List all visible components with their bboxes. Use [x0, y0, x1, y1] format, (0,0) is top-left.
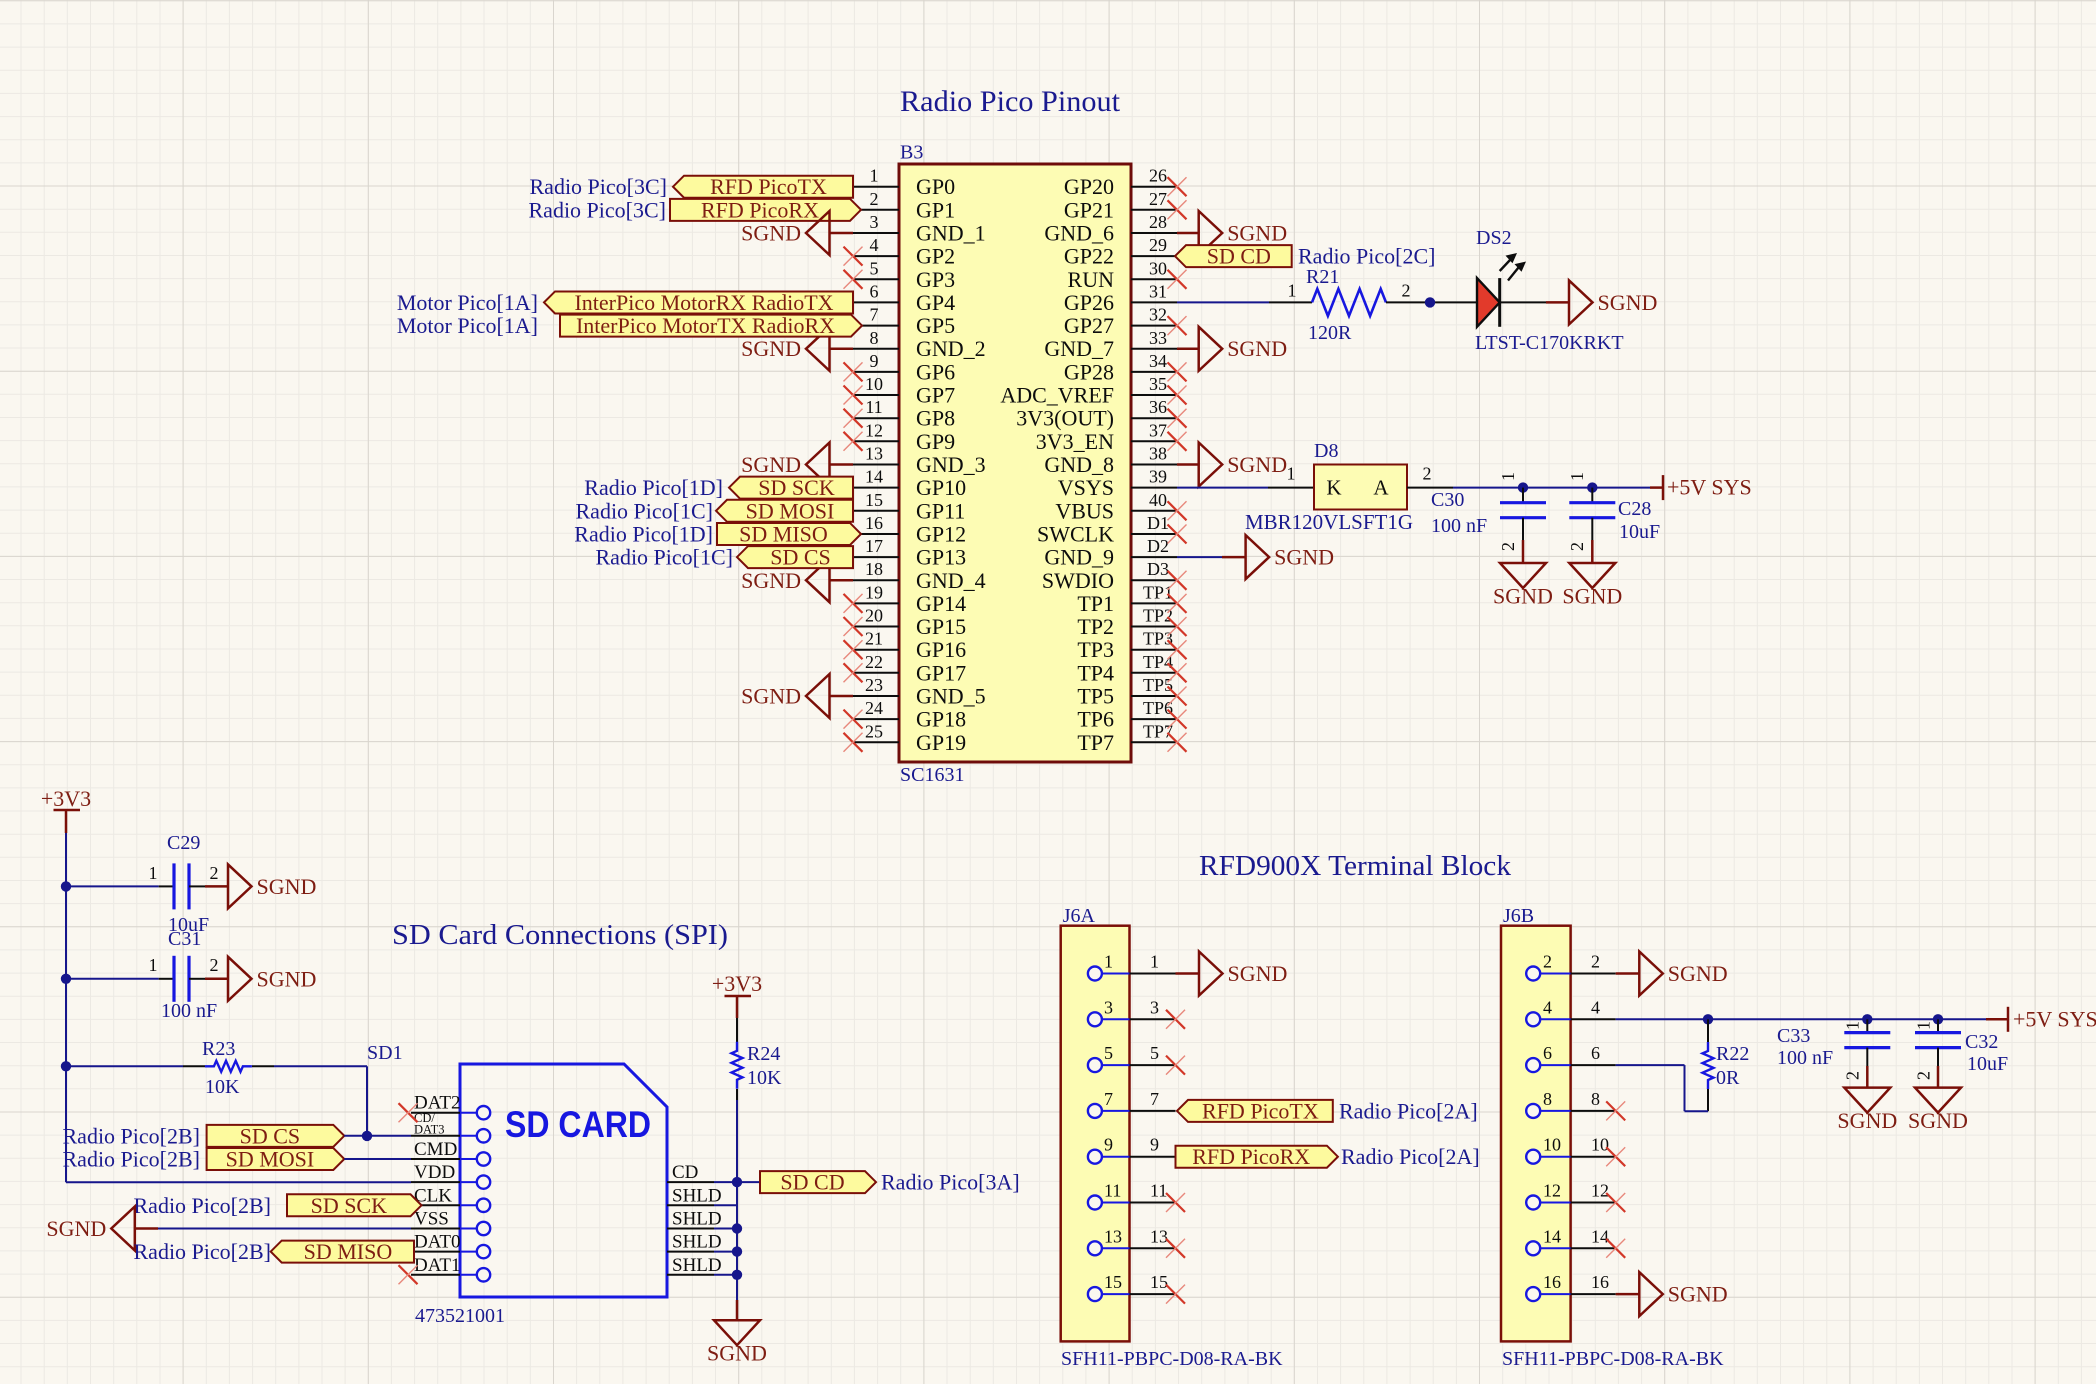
no-connect X pin 34 [1168, 362, 1187, 381]
port SD MOSI (pin15) [716, 500, 853, 522]
resistor R23 [205, 1061, 252, 1072]
svg-text:Radio Pico[2A]: Radio Pico[2A] [1341, 1144, 1480, 1169]
svg-text:GP21: GP21 [1064, 197, 1114, 222]
ground SGND pin8 [806, 327, 830, 371]
no-connect X pin TP7 [1168, 733, 1187, 752]
B3 pin 22 (GP17) [853, 652, 966, 686]
svg-text:SGND: SGND [1227, 221, 1287, 246]
power +5V SYS (top) [1662, 475, 1665, 500]
svg-text:TP7: TP7 [1077, 730, 1114, 755]
svg-text:26: 26 [1149, 166, 1167, 186]
svg-text:Radio Pico[1C]: Radio Pico[1C] [596, 545, 734, 570]
port RFD PicoTX (J6A pin7) [1177, 1100, 1333, 1122]
svg-text:TP3: TP3 [1143, 629, 1173, 649]
ground SGND pin 38 [1199, 443, 1223, 487]
SD1 right pin SHLD [667, 1255, 722, 1276]
diode D8 [1314, 465, 1407, 510]
svg-text:4: 4 [870, 235, 879, 255]
port SD MOSI (SD card) [207, 1148, 345, 1170]
svg-text:1: 1 [1843, 1021, 1863, 1030]
J6B pin 10 [1526, 1135, 1616, 1164]
B3 pin 39 (VSYS) [1058, 467, 1177, 501]
port SD SCK (SD card) [287, 1194, 422, 1216]
svg-text:C33: C33 [1777, 1025, 1810, 1047]
wire SHLD4 [714, 1274, 737, 1276]
svg-text:15: 15 [1104, 1272, 1122, 1292]
svg-text:TP1: TP1 [1143, 582, 1173, 602]
svg-text:RFD PicoTX: RFD PicoTX [1202, 1098, 1319, 1123]
svg-text:1: 1 [1288, 280, 1297, 300]
resistor R22 [1703, 1042, 1714, 1089]
no-connect X J6B pin 10 [1606, 1147, 1625, 1166]
svg-text:C32: C32 [1965, 1031, 1998, 1053]
port RFD PicoTX (pin1) [673, 176, 853, 198]
J6B pin 8 [1526, 1089, 1616, 1118]
no-connect X pin 5 [844, 270, 863, 289]
svg-text:2: 2 [1567, 542, 1587, 551]
ground SGND pin 28 [1199, 211, 1223, 255]
svg-text:23: 23 [865, 675, 883, 695]
no-connect X pin D1 [1168, 525, 1187, 544]
B3 pin 7 (GP5) [853, 305, 955, 339]
svg-text:SD SCK: SD SCK [758, 475, 835, 500]
wire pin13 to SGND [830, 463, 854, 466]
svg-text:GND_6: GND_6 [1044, 221, 1114, 246]
junction at SD CS [362, 1131, 372, 1141]
wire C31 to SGND [189, 978, 205, 980]
SD1 right pin CD [667, 1162, 714, 1183]
junction at R22 [1703, 1014, 1713, 1024]
B3 pin TP6 (TP6) [1077, 698, 1177, 732]
svg-text:K: K [1326, 476, 1341, 500]
junction at CD [732, 1177, 742, 1187]
B3 pin 32 (GP27) [1064, 305, 1177, 339]
no-connect X pin 19 [844, 594, 863, 613]
svg-text:SFH11-PBPC-D08-RA-BK: SFH11-PBPC-D08-RA-BK [1502, 1348, 1724, 1370]
no-connect X pin 11 [844, 409, 863, 428]
svg-text:R24: R24 [747, 1043, 780, 1065]
svg-text:1: 1 [1498, 472, 1518, 481]
svg-text:RFD PicoTX: RFD PicoTX [710, 174, 827, 199]
wire R21 to LED [1386, 301, 1477, 303]
svg-text:GND_8: GND_8 [1044, 452, 1114, 477]
svg-text:Motor Pico[1A]: Motor Pico[1A] [397, 290, 538, 315]
svg-text:SGND: SGND [1274, 545, 1334, 570]
svg-text:7: 7 [1104, 1089, 1113, 1109]
SD1 right pin SHLD [667, 1232, 722, 1253]
svg-text:35: 35 [1149, 374, 1167, 394]
svg-text:C30: C30 [1431, 489, 1464, 511]
svg-text:16: 16 [1591, 1272, 1609, 1292]
svg-text:SHLD: SHLD [672, 1185, 722, 1206]
svg-text:10: 10 [865, 374, 883, 394]
no-connect X pin TP2 [1168, 617, 1187, 636]
svg-text:28: 28 [1149, 212, 1167, 232]
wire SHLD rail down [736, 1182, 738, 1300]
svg-text:13: 13 [1104, 1226, 1122, 1246]
svg-text:+5V SYS: +5V SYS [1667, 475, 1752, 500]
wire +3V3 rail vertical [65, 833, 67, 1182]
capacitor C30 [1500, 488, 1546, 563]
junction at C30 [1518, 482, 1528, 492]
B3 pin 14 (GP10) [853, 467, 966, 501]
svg-text:12: 12 [1543, 1181, 1561, 1201]
ground SGND pin18 [806, 558, 830, 602]
no-connect X pin TP3 [1168, 640, 1187, 659]
svg-text:27: 27 [1149, 189, 1167, 209]
svg-text:Radio Pico[1D]: Radio Pico[1D] [584, 475, 723, 500]
svg-text:SGND: SGND [1228, 961, 1288, 986]
J6B pin 14 [1526, 1226, 1616, 1255]
svg-text:RFD PicoRX: RFD PicoRX [1192, 1144, 1310, 1169]
svg-text:5: 5 [1104, 1043, 1113, 1063]
svg-text:20: 20 [865, 606, 883, 626]
SD1 right pin SHLD [667, 1209, 722, 1230]
svg-text:24: 24 [865, 698, 883, 718]
ground SGND pin D2 [1246, 535, 1270, 579]
wire SHLD1 [714, 1204, 737, 1206]
svg-text:SFH11-PBPC-D08-RA-BK: SFH11-PBPC-D08-RA-BK [1061, 1348, 1283, 1370]
svg-text:3: 3 [1104, 997, 1113, 1017]
J6A pin 7 [1088, 1089, 1176, 1118]
svg-text:GP12: GP12 [916, 522, 966, 547]
no-connect X pin TP6 [1168, 710, 1187, 729]
wire J6A pin1 to SGND [1176, 972, 1200, 975]
svg-text:LTST-C170KRKT: LTST-C170KRKT [1475, 332, 1624, 354]
svg-text:SGND: SGND [257, 966, 317, 991]
svg-text:SD MOSI: SD MOSI [746, 498, 835, 523]
svg-text:R23: R23 [202, 1038, 235, 1060]
ground SGND below C33 [1844, 1088, 1890, 1113]
svg-text:TP1: TP1 [1077, 591, 1114, 616]
svg-text:38: 38 [1149, 444, 1167, 464]
svg-text:25: 25 [865, 721, 883, 741]
svg-text:29: 29 [1149, 235, 1167, 255]
svg-text:10: 10 [1543, 1135, 1561, 1155]
no-connect X pin TP5 [1168, 687, 1187, 706]
B3 pin 24 (GP18) [853, 698, 966, 732]
no-connect X pin 24 [844, 710, 863, 729]
svg-text:22: 22 [865, 652, 883, 672]
svg-text:SGND: SGND [741, 221, 801, 246]
no-connect X pin 30 [1168, 270, 1187, 289]
svg-text:A: A [1373, 476, 1389, 500]
wire SD MOSI to CMD [344, 1158, 411, 1160]
B3 pin 37 (3V3_EN) [1036, 420, 1177, 454]
B3 pin 15 (GP11) [853, 490, 965, 524]
B3 pin 40 (VBUS) [1055, 490, 1177, 524]
svg-text:11: 11 [1104, 1181, 1121, 1201]
wire D8 to +5V SYS [1407, 487, 1453, 489]
svg-text:C28: C28 [1618, 498, 1651, 520]
J6B pin 4 [1526, 997, 1616, 1026]
wire R23 to SD CS net [252, 1065, 274, 1067]
svg-text:3: 3 [870, 212, 879, 232]
svg-text:TP3: TP3 [1077, 637, 1114, 662]
connector J6B body [1501, 926, 1571, 1342]
junction [1425, 297, 1435, 307]
B3 pin 2 (GP1) [853, 189, 955, 223]
svg-text:9: 9 [870, 351, 879, 371]
svg-text:InterPico MotorTX RadioRX: InterPico MotorTX RadioRX [576, 313, 835, 338]
B3 pin D2 (GND_9) [1044, 536, 1177, 570]
svg-text:16: 16 [1543, 1272, 1561, 1292]
svg-text:SD1: SD1 [367, 1042, 403, 1064]
svg-text:C31: C31 [168, 928, 201, 950]
B3 pin D3 (SWDIO) [1042, 559, 1177, 593]
svg-text:GP20: GP20 [1064, 174, 1114, 199]
svg-text:SGND: SGND [46, 1216, 106, 1241]
B3 pin 8 (GND_2) [853, 328, 986, 361]
resistor R21 [1312, 289, 1386, 316]
svg-text:2: 2 [1423, 464, 1432, 484]
B3 pin 29 (GP22) [1064, 235, 1177, 269]
no-connect X pin TP4 [1168, 663, 1187, 682]
svg-text:GP3: GP3 [916, 267, 955, 292]
no-connect X pin 12 [844, 432, 863, 451]
B3 pin 35 (ADC_VREF) [1000, 374, 1177, 408]
svg-text:SD CS: SD CS [770, 545, 831, 570]
J6A pin 3 [1088, 997, 1176, 1026]
svg-text:SD CARD: SD CARD [505, 1104, 651, 1145]
svg-text:SGND: SGND [707, 1341, 767, 1366]
svg-text:SGND: SGND [1908, 1108, 1968, 1133]
B3 pin TP1 (TP1) [1077, 582, 1177, 616]
no-connect X J6A pin 15 [1166, 1285, 1185, 1304]
svg-text:33: 33 [1149, 328, 1167, 348]
no-connect X pin TP1 [1168, 594, 1187, 613]
svg-text:8: 8 [870, 328, 879, 348]
no-connect X DAT2 [399, 1103, 418, 1122]
svg-text:GP19: GP19 [916, 730, 966, 755]
capacitor C29 [174, 863, 189, 909]
wire SHLD3 [714, 1251, 737, 1253]
svg-text:SGND: SGND [1837, 1108, 1897, 1133]
connector J6A body [1061, 926, 1130, 1342]
junction at R23 [61, 1061, 71, 1071]
svg-text:Radio Pico[2B]: Radio Pico[2B] [134, 1193, 272, 1218]
B3 pin 33 (GND_7) [1044, 328, 1177, 361]
svg-text:SWDIO: SWDIO [1042, 568, 1114, 593]
SD1 left pin VDD [411, 1162, 490, 1189]
wire LED to SGND [1500, 301, 1546, 303]
no-connect X J6A pin 3 [1166, 1010, 1185, 1029]
port InterPico MotorTX RadioRX (pin7) [560, 315, 862, 337]
svg-text:SGND: SGND [1227, 452, 1287, 477]
svg-text:SD CD: SD CD [780, 1170, 844, 1195]
svg-text:DS2: DS2 [1476, 227, 1512, 249]
svg-text:GP7: GP7 [916, 383, 955, 408]
ground SGND pin 33 [1199, 327, 1223, 371]
B3 pin 18 (GND_4) [853, 559, 986, 593]
B3 pin TP5 (TP5) [1077, 675, 1177, 709]
svg-text:CD: CD [672, 1162, 698, 1183]
svg-text:5: 5 [870, 258, 879, 278]
svg-text:GP8: GP8 [916, 406, 955, 431]
svg-text:GP27: GP27 [1064, 313, 1114, 338]
B3 pin 13 (GND_3) [853, 444, 986, 478]
no-connect X pin 35 [1168, 386, 1187, 405]
port SD CS (SD card) [207, 1125, 345, 1147]
wire SD CS to CD/DAT3 [344, 1135, 411, 1137]
B3 pin 36 (3V3(OUT)) [1016, 397, 1177, 431]
svg-text:J6B: J6B [1503, 905, 1534, 927]
svg-text:2: 2 [1914, 1071, 1934, 1080]
J6A pin 13 [1088, 1226, 1176, 1255]
no-connect X pin 36 [1168, 409, 1187, 428]
svg-text:TP5: TP5 [1143, 675, 1173, 695]
svg-text:0R: 0R [1716, 1067, 1740, 1089]
svg-text:GP1: GP1 [916, 197, 955, 222]
svg-text:SD SCK: SD SCK [311, 1193, 388, 1218]
wire pin3 to SGND [830, 232, 854, 235]
port RFD PicoRX (J6A pin9) [1176, 1146, 1338, 1168]
J6B pin 6 [1526, 1043, 1616, 1072]
wire pin18 to SGND [830, 579, 854, 582]
junction at C32 [1933, 1014, 1943, 1024]
J6B pin 2 [1526, 952, 1616, 981]
svg-text:1: 1 [1287, 464, 1296, 484]
svg-text:9: 9 [1104, 1135, 1113, 1155]
svg-text:Radio Pico[1D]: Radio Pico[1D] [574, 522, 713, 547]
resistor R24 [732, 1042, 743, 1089]
svg-text:MBR120VLSFT1G: MBR120VLSFT1G [1245, 510, 1413, 534]
svg-text:Radio Pico[2B]: Radio Pico[2B] [63, 1123, 201, 1148]
B3 pin 38 (GND_8) [1044, 444, 1177, 478]
J6A pin 15 [1088, 1272, 1176, 1301]
svg-text:SD MOSI: SD MOSI [226, 1147, 315, 1172]
port SD CD (pin29) [1175, 245, 1292, 267]
svg-text:6: 6 [870, 281, 879, 301]
no-connect X pin 32 [1168, 316, 1187, 335]
wire pin row to SGND (pin 28) [1177, 232, 1199, 235]
svg-text:12: 12 [1591, 1181, 1609, 1201]
svg-text:DAT1: DAT1 [414, 1255, 460, 1276]
svg-text:21: 21 [865, 629, 883, 649]
wire pin8 to SGND [830, 348, 854, 351]
B3 pin 28 (GND_6) [1044, 212, 1177, 246]
svg-text:16: 16 [865, 513, 883, 533]
B3 pin TP3 (TP3) [1077, 629, 1177, 663]
J6B pin 12 [1526, 1181, 1616, 1210]
no-connect X pin 27 [1168, 200, 1187, 219]
wire rail to VDD [66, 1181, 411, 1183]
svg-text:40: 40 [1149, 490, 1167, 510]
B3 pin 11 (GP8) [853, 397, 955, 431]
svg-text:VBUS: VBUS [1055, 498, 1114, 523]
capacitor C33 [1844, 1019, 1890, 1087]
svg-text:GP17: GP17 [916, 660, 966, 685]
svg-text:GP4: GP4 [916, 290, 955, 315]
no-connect X J6A pin 13 [1166, 1239, 1185, 1258]
ground SGND pin3 [806, 211, 830, 255]
svg-text:D1: D1 [1147, 513, 1169, 533]
wire SHLD2 [714, 1228, 737, 1230]
ground SGND below C28 [1569, 563, 1615, 588]
svg-text:GP5: GP5 [916, 313, 955, 338]
SD1 left pin DAT2 [411, 1093, 490, 1120]
svg-text:9: 9 [1150, 1135, 1159, 1155]
B3 pin 23 (GND_5) [853, 675, 986, 709]
svg-text:D2: D2 [1147, 536, 1169, 556]
svg-text:GND_4: GND_4 [916, 568, 986, 593]
svg-text:RFD PicoRX: RFD PicoRX [701, 197, 819, 222]
svg-text:InterPico MotorRX RadioTX: InterPico MotorRX RadioTX [574, 290, 833, 315]
junction at C28 [1587, 482, 1597, 492]
svg-text:GP28: GP28 [1064, 359, 1114, 384]
no-connect X pin 26 [1168, 177, 1187, 196]
svg-text:3V3_EN: 3V3_EN [1036, 429, 1114, 454]
svg-text:+3V3: +3V3 [712, 971, 762, 996]
svg-text:10uF: 10uF [1619, 521, 1660, 543]
B3 pin TP7 (TP7) [1077, 721, 1177, 755]
svg-text:11: 11 [1150, 1181, 1167, 1201]
svg-text:SGND: SGND [741, 452, 801, 477]
wire J6B pin2 to SGND [1616, 972, 1640, 975]
B3 pin D1 (SWCLK) [1037, 513, 1177, 547]
port SD SCK (pin14) [729, 477, 853, 499]
svg-text:120R: 120R [1308, 322, 1352, 344]
svg-text:GP14: GP14 [916, 591, 966, 616]
svg-text:RFD900X Terminal Block: RFD900X Terminal Block [1199, 851, 1511, 882]
svg-text:CMD: CMD [414, 1139, 457, 1160]
svg-text:RUN: RUN [1068, 267, 1115, 292]
svg-text:ADC_VREF: ADC_VREF [1000, 383, 1114, 408]
svg-text:19: 19 [865, 582, 883, 602]
svg-text:4: 4 [1591, 997, 1600, 1017]
ground SGND J6A pin1 [1199, 952, 1223, 996]
no-connect X J6A pin 5 [1166, 1056, 1185, 1075]
svg-text:Radio Pico[2C]: Radio Pico[2C] [1298, 244, 1436, 269]
svg-text:D3: D3 [1147, 559, 1169, 579]
svg-text:32: 32 [1149, 305, 1167, 325]
svg-text:TP7: TP7 [1143, 721, 1173, 741]
svg-text:Radio Pico[3C]: Radio Pico[3C] [530, 174, 668, 199]
svg-text:1: 1 [870, 166, 879, 186]
no-connect X pin 25 [844, 733, 863, 752]
svg-text:SGND: SGND [741, 684, 801, 709]
ground SGND pin23 [806, 674, 830, 718]
svg-text:SGND: SGND [257, 874, 317, 899]
wire R22 to pin6 [1707, 1089, 1709, 1111]
svg-text:15: 15 [865, 490, 883, 510]
svg-text:Radio Pico[2B]: Radio Pico[2B] [63, 1147, 201, 1172]
ground SGND pin13 [806, 443, 830, 487]
SD1 right pin SHLD [667, 1185, 722, 1206]
svg-text:15: 15 [1150, 1272, 1168, 1292]
svg-text:10K: 10K [205, 1076, 240, 1098]
wire VSYS to D8 [1177, 487, 1268, 489]
svg-text:1: 1 [1150, 952, 1159, 972]
svg-text:1: 1 [1914, 1021, 1934, 1030]
svg-text:11: 11 [865, 397, 882, 417]
wire R24 to CD [736, 1089, 738, 1100]
wire pin4 to R22 [1707, 1019, 1709, 1042]
svg-text:3: 3 [1150, 997, 1159, 1017]
svg-text:TP4: TP4 [1077, 660, 1114, 685]
svg-text:TP2: TP2 [1077, 614, 1114, 639]
svg-text:37: 37 [1149, 420, 1167, 440]
svg-text:TP2: TP2 [1143, 606, 1173, 626]
junction SHLD3 [732, 1246, 742, 1256]
junction SHLD4 [732, 1270, 742, 1280]
wire C29 to SGND [189, 885, 205, 887]
SD1 left pin CLK [411, 1185, 490, 1212]
no-connect X pin D3 [1168, 571, 1187, 590]
port SD MISO (SD card) [271, 1241, 414, 1263]
svg-text:14: 14 [1543, 1226, 1561, 1246]
port SD CS (pin17) [737, 546, 853, 568]
